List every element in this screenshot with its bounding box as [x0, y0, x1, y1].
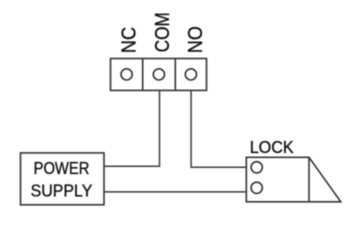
lock wedge triangle: [309, 157, 341, 202]
wire power supply to lock (lower): [104, 191, 246, 193]
terminal divider NC/COM: [142, 59, 144, 91]
svg-text:LOCK: LOCK: [250, 137, 294, 157]
lock body rectangle: [246, 157, 309, 202]
NC terminal screw: [121, 69, 132, 80]
svg-text:SUPPLY: SUPPLY: [31, 180, 93, 200]
svg-text:POWER: POWER: [34, 158, 90, 178]
wire COM terminal to power supply: [104, 90, 160, 166]
NO terminal screw: [185, 69, 196, 80]
lock terminal lower: [251, 182, 262, 193]
relay terminal block outline: [111, 59, 207, 91]
svg-text:NO: NO: [185, 26, 207, 53]
terminal divider COM/NO: [174, 59, 176, 91]
svg-text:NC: NC: [118, 27, 140, 53]
power supply box: [21, 153, 105, 205]
svg-text:COM: COM: [152, 12, 174, 52]
wire NO terminal to lock: [191, 90, 246, 167]
COM terminal screw: [153, 69, 164, 80]
lock terminal upper: [251, 162, 262, 173]
